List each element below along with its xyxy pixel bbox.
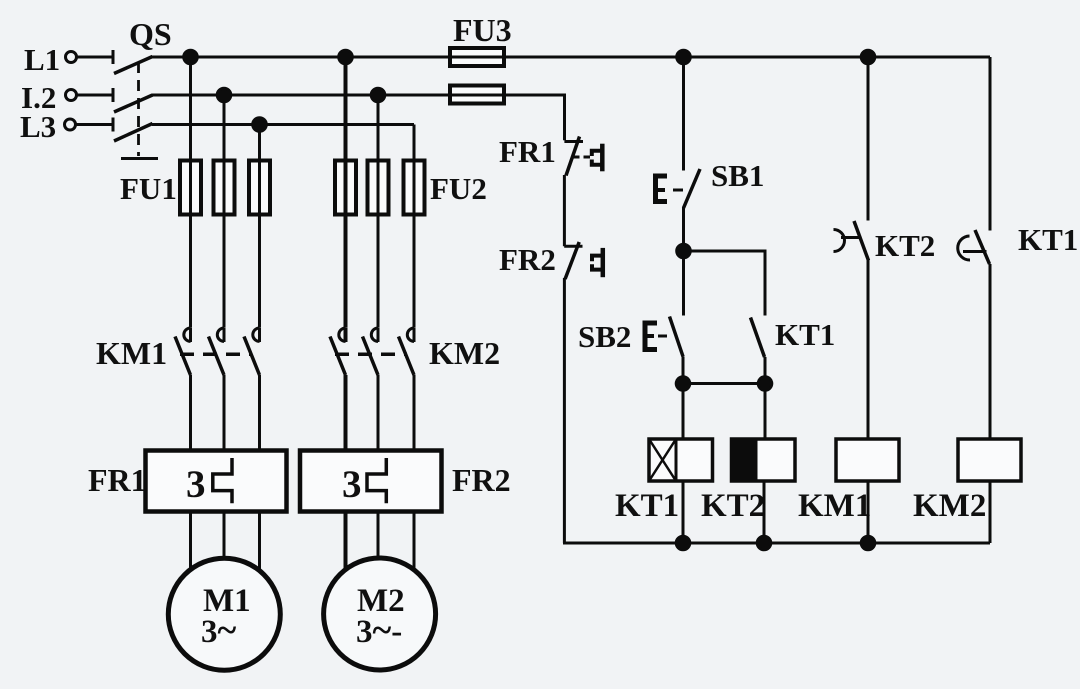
wire linking the two nodes (683, 382, 765, 385)
terminal L2 (66, 90, 77, 101)
fuse FU1 pole3 (249, 161, 270, 215)
wire FR1 to FR2 contact (563, 175, 566, 246)
wire SB1 to node (682, 208, 685, 252)
wire L1 terminal to QS (77, 56, 113, 59)
svg-text:KT2: KT2 (875, 228, 935, 263)
svg-text:KT1: KT1 (775, 317, 835, 352)
thermal overload relay FR2 (300, 451, 442, 512)
svg-text:3~: 3~ (201, 610, 237, 650)
wire to KT2 coil (764, 384, 767, 440)
svg-text:KM2: KM2 (913, 488, 986, 524)
svg-text:L3: L3 (20, 109, 56, 144)
node above KT1 coil (676, 377, 690, 391)
node above KT2 coil (758, 377, 772, 391)
node KT1 bus (676, 536, 690, 550)
wire FR2 to M2 lead1 (344, 512, 348, 573)
svg-text:KT2: KT2 (701, 488, 765, 524)
wire node to KT2 delay contact (867, 57, 870, 221)
fuse FU3 pole 1 (450, 48, 504, 66)
coil KM2 (958, 439, 1021, 481)
svg-text:FU2: FU2 (430, 171, 487, 206)
pushbutton SB1 (NC stop) (656, 169, 701, 208)
wire L3 terminal to QS (76, 123, 113, 126)
contact KT1 (NC off-delay) (958, 230, 990, 264)
svg-text:FR2: FR2 (499, 242, 556, 277)
wire FR2 to M2 lead3 (413, 512, 416, 574)
svg-text:3~-: 3~- (356, 610, 402, 650)
svg-text:KM2: KM2 (429, 335, 500, 371)
wire L3 bus (152, 123, 414, 126)
wire FR2 contact to bottom bus (563, 278, 566, 543)
wire SB2 to node (682, 357, 685, 384)
svg-text:FR1: FR1 (88, 462, 147, 498)
fuse FU1 pole1 (180, 161, 201, 215)
wire KM2 pole3 to FR2 (413, 375, 416, 451)
thermal contact FR2 (NC) (564, 242, 603, 279)
svg-text:FR2: FR2 (452, 462, 511, 498)
terminal L1 (66, 52, 77, 63)
wire column FU2 pole1 (344, 57, 348, 328)
wire KM2 coil to bus (989, 481, 992, 543)
svg-text:KM1: KM1 (798, 488, 871, 524)
svg-text:FR1: FR1 (499, 134, 556, 169)
fuse FU2 pole1 (335, 161, 356, 215)
coil KT1 (time relay) (649, 439, 713, 481)
wire KM1 pole1 to FR1 (189, 375, 192, 451)
coil KT2 (time relay) (732, 439, 796, 481)
wire column FU2 pole2 (377, 95, 380, 328)
node SB1 bottom (677, 244, 691, 258)
wire top right corner to KT1 delay contact (989, 57, 992, 231)
thermal overload relay FR1 (146, 451, 287, 512)
svg-text:L1: L1 (24, 42, 60, 77)
wire L2 terminal to QS (77, 94, 113, 97)
node L1-KM1coil branch (861, 50, 875, 64)
disconnect switch QS (113, 50, 158, 159)
svg-text:KM1: KM1 (96, 335, 167, 371)
wire KT2 coil to bus (763, 481, 766, 543)
contactor KM2 main contacts (330, 328, 414, 375)
fuse FU2 pole2 (368, 161, 389, 215)
wire FR1 to M1 lead1 (189, 512, 192, 573)
fuse FU3 pole 2 (450, 86, 504, 104)
node L1-FU2 (339, 50, 353, 64)
wire KM2 pole2 to FR2 (377, 375, 380, 451)
contactor KM1 main contacts (175, 328, 260, 375)
node L2-FU1 (217, 88, 231, 102)
wire FR1 to M1 lead3 (258, 512, 261, 574)
svg-text:3: 3 (186, 463, 206, 506)
wire KT1 contact to node (764, 357, 767, 384)
wire column FU2 pole3 (413, 125, 416, 328)
wire KT2 contact to KM1 coil (867, 260, 870, 439)
contact KT1 (NO instantaneous) (751, 318, 765, 358)
node L1-FU1 (184, 50, 198, 64)
pushbutton SB2 (NO start) (645, 317, 683, 357)
wire KM1 pole3 to FR1 (258, 375, 261, 451)
node KM1 bus (861, 536, 875, 550)
fuse FU1 pole2 (214, 161, 235, 215)
svg-text:KT1: KT1 (615, 488, 679, 524)
bottom bus wire (563, 542, 990, 545)
wire node to SB2 (682, 251, 685, 316)
node L2-FU2 (371, 88, 385, 102)
motor M1 (168, 558, 280, 670)
svg-text:QS: QS (129, 16, 172, 52)
wire L1 node to SB1 (682, 57, 685, 171)
contact KT2 (NO on-delay) (834, 221, 869, 261)
wire KM1 pole2 to FR1 (223, 375, 226, 451)
wire column FU1 pole3 (258, 125, 261, 328)
wire KM1 coil to bus (867, 481, 870, 543)
wire KT1 coil to bus (682, 481, 685, 543)
wire FR2 to M2 lead2 (377, 512, 380, 561)
svg-text:3: 3 (342, 463, 362, 506)
terminal L3 (65, 119, 76, 130)
svg-text:FU1: FU1 (120, 171, 177, 206)
wire L1 bus (152, 56, 990, 59)
wire L2 bus to control circuit (152, 95, 565, 140)
svg-text:SB2: SB2 (578, 319, 631, 354)
motor M2 (324, 558, 436, 670)
svg-text:FU3: FU3 (453, 12, 512, 48)
wire branch to KT1 contact (684, 251, 766, 316)
node L3-FU1 (253, 118, 267, 132)
wire column FU1 pole1 (189, 57, 192, 328)
fuse FU2 pole3 (404, 161, 425, 215)
wire KM2 pole1 to FR2 (344, 375, 348, 451)
wire to KT1 coil (682, 384, 685, 440)
node KT2 bus (757, 536, 771, 550)
wire FR1 to M1 lead2 (223, 512, 226, 561)
wire KT1 contact to KM2 coil (989, 264, 992, 439)
coil KM1 (836, 439, 899, 481)
svg-text:SB1: SB1 (711, 158, 764, 193)
node L1-control (677, 50, 691, 64)
thermal contact FR1 (NC) (564, 137, 602, 176)
wire column FU1 pole2 (223, 95, 226, 328)
svg-text:KT1: KT1 (1018, 222, 1078, 257)
